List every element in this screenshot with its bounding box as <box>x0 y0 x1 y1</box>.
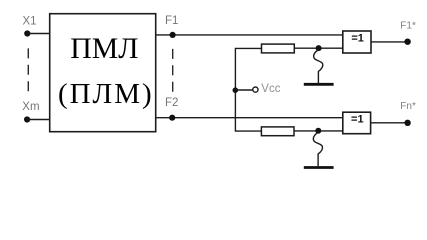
svg-text:=1: =1 <box>351 32 364 44</box>
resistor R2 <box>261 127 294 136</box>
power terminal Vcc (open circle) <box>253 87 258 92</box>
node F2 junction dot <box>169 115 175 121</box>
wire gate output top <box>371 41 405 43</box>
svg-text:Fn*: Fn* <box>400 101 416 112</box>
wire fuse squiggle top <box>314 50 323 84</box>
wire Xm to box <box>27 119 50 121</box>
wire F2 (box to gate) <box>156 117 343 119</box>
wire fuse squiggle bottom <box>313 132 322 166</box>
wire X1 to box <box>27 33 50 35</box>
svg-text:F1*: F1* <box>400 21 416 32</box>
wire gate output bottom <box>371 122 405 124</box>
svg-text:F2: F2 <box>165 97 178 109</box>
svg-text:Xm: Xm <box>22 101 39 113</box>
dashed line right (F1..F2 ellipsis) <box>172 49 174 92</box>
input terminal Xm <box>24 116 30 122</box>
svg-text:F1: F1 <box>165 15 178 27</box>
output terminal Fn* <box>404 120 410 126</box>
input terminal X1 <box>24 30 30 36</box>
node F1 junction dot <box>170 32 176 38</box>
node junction dot top pull-up <box>316 45 322 51</box>
wire F1 (box to gate) <box>156 34 343 36</box>
gate U3 (=1) bottom <box>343 112 371 134</box>
resistor R1 <box>262 44 295 53</box>
dashed line left (X1..Xm ellipsis) <box>27 48 29 91</box>
PML block U1 body <box>50 14 156 132</box>
wire pull-up top (resistor line) <box>294 47 343 49</box>
node Vcc junction dot <box>233 87 239 93</box>
svg-text:=1: =1 <box>351 113 364 125</box>
wire Vcc stub <box>235 89 252 91</box>
wire pull-up bottom (resistor line) <box>294 130 343 132</box>
gate U2 (=1) top <box>343 31 371 53</box>
svg-text:X1: X1 <box>23 15 37 27</box>
wire Vcc bus (vertical) <box>235 48 261 131</box>
ground (top) <box>304 83 334 86</box>
svg-text:ПМЛ: ПМЛ <box>70 32 138 65</box>
svg-text:Vcc: Vcc <box>261 83 280 95</box>
output terminal F1* <box>404 39 410 45</box>
node junction dot bottom pull-up <box>315 128 321 134</box>
ground (bottom) <box>304 166 334 169</box>
svg-text:(ПЛМ): (ПЛМ) <box>58 78 154 110</box>
